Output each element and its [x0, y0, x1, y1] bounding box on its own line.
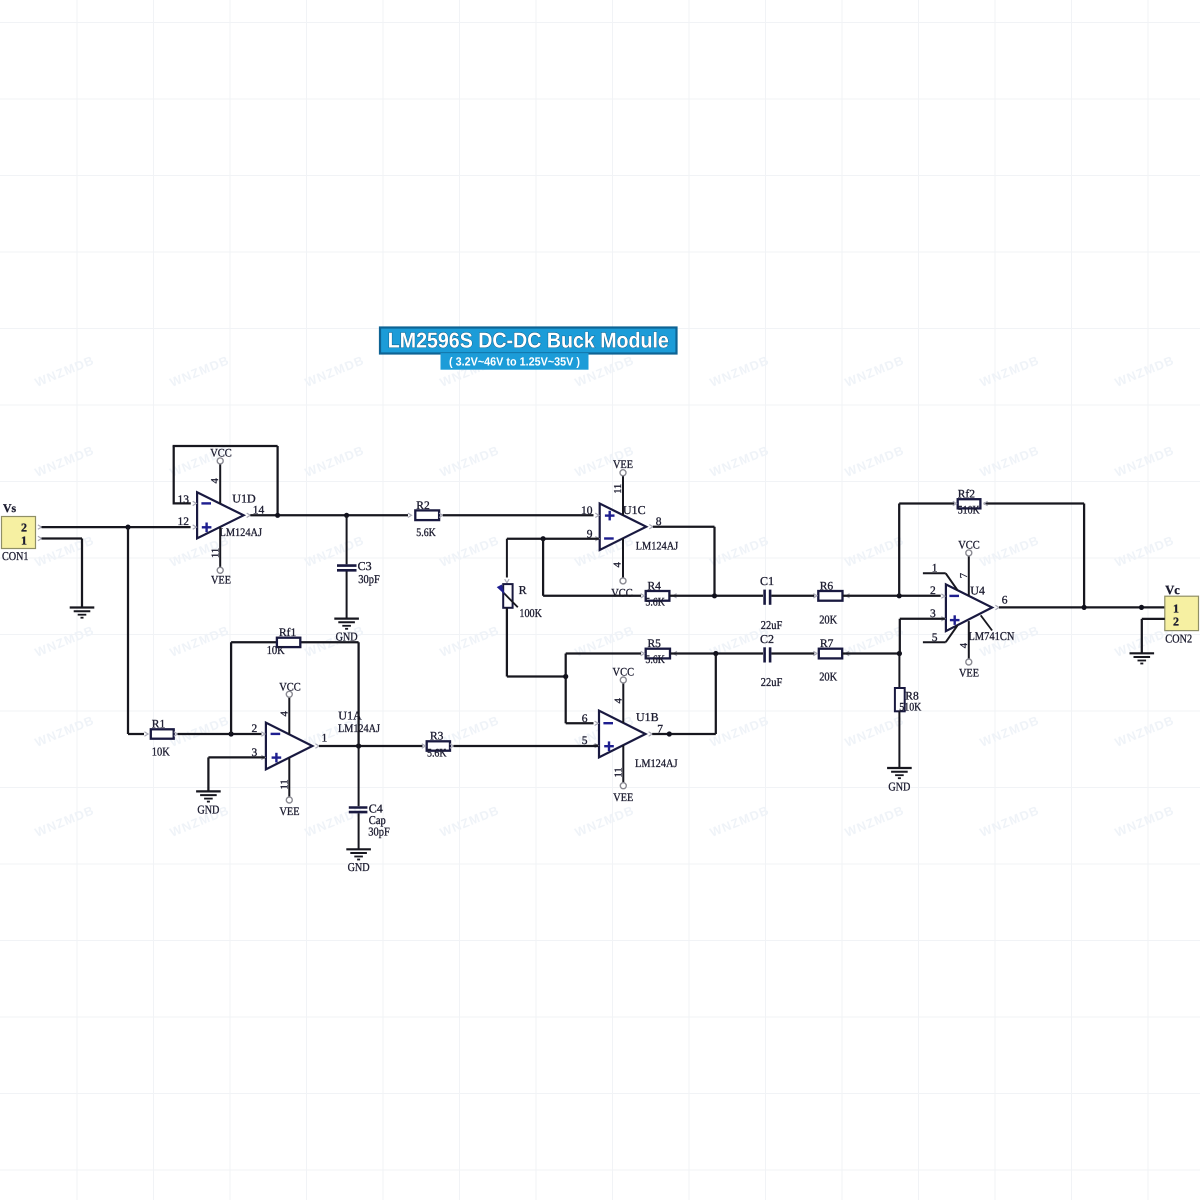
wire U1A output to R3	[319, 745, 423, 747]
svg-text:2: 2	[252, 723, 258, 735]
op-amp U1B LM124AJ	[582, 667, 678, 804]
op-amp U1A LM124AJ	[252, 681, 381, 818]
resistor Rf1 10K	[267, 627, 301, 657]
svg-text:11: 11	[613, 767, 624, 777]
junction U4 pin3 / R8	[897, 651, 902, 656]
wire U1C output down to R4 line	[653, 526, 715, 528]
svg-text:30pF: 30pF	[368, 825, 390, 839]
VEE power pin (pin 11)	[219, 527, 221, 567]
junction Rf2 right leg	[1082, 605, 1087, 610]
svg-text:100K: 100K	[519, 606, 542, 620]
ground (CON2)	[1130, 652, 1155, 654]
junction C4/Rf1 tap	[356, 743, 361, 748]
svg-text:4: 4	[613, 698, 624, 704]
svg-text:Rf1: Rf1	[279, 627, 297, 639]
wire R2 to U1C pin10	[443, 514, 594, 516]
wire U4 pin3 down to R7 node	[900, 618, 945, 620]
connector CON1	[2, 517, 42, 564]
VCC power pin (pin 4)	[288, 697, 290, 734]
svg-text:6: 6	[1002, 594, 1008, 606]
svg-text:30pF: 30pF	[358, 572, 380, 586]
junction on U1B output	[667, 731, 672, 736]
svg-text:10K: 10K	[152, 745, 170, 759]
resistor R5 5.6K	[641, 638, 677, 666]
svg-text:2: 2	[1173, 615, 1179, 629]
svg-text:5.6K: 5.6K	[645, 597, 665, 609]
wire junction up to R5 left	[565, 654, 567, 677]
wire U4 output to CON2	[999, 606, 1165, 608]
wire C1 to R6	[771, 595, 814, 597]
part LM741CN with callout	[981, 615, 992, 630]
svg-text:10: 10	[581, 505, 593, 517]
svg-text:U1C: U1C	[623, 503, 646, 517]
VCC power pin (pin 7)	[968, 556, 970, 596]
wire junction down to U1B pin6	[565, 677, 567, 724]
svg-text:5.6K: 5.6K	[416, 527, 436, 539]
svg-text:4: 4	[613, 562, 624, 568]
svg-text:R1: R1	[152, 719, 166, 731]
wire feedback node down to R4 left	[542, 539, 544, 596]
svg-text:LM2596S DC-DC Buck Module: LM2596S DC-DC Buck Module	[388, 329, 669, 353]
ground (R8)	[887, 767, 912, 769]
title banner: LM2596S DC-DC Buck Module	[380, 328, 677, 370]
svg-text:2: 2	[21, 521, 27, 535]
junction CON2 branch	[1139, 605, 1144, 610]
VCC power pin (pin 4)	[622, 683, 624, 723]
svg-text:1: 1	[322, 733, 328, 745]
svg-text:U1D: U1D	[232, 491, 256, 505]
svg-text:2: 2	[930, 585, 936, 597]
svg-text:CON1: CON1	[2, 549, 29, 563]
wire R7 to R8 node	[842, 652, 899, 654]
svg-text:6: 6	[582, 713, 588, 725]
svg-text:5.6K: 5.6K	[645, 654, 665, 666]
resistor R2 5.6K	[408, 500, 443, 539]
capacitor C1 22uF	[760, 574, 783, 632]
svg-text:VCC: VCC	[611, 587, 633, 599]
svg-text:5.6K: 5.6K	[427, 748, 447, 760]
svg-text:20K: 20K	[819, 612, 837, 626]
junction U1B output / R5 / C2	[713, 651, 718, 656]
svg-text:R6: R6	[820, 580, 834, 592]
svg-text:LM124AJ: LM124AJ	[635, 758, 678, 770]
wire R5 to C2	[670, 652, 763, 654]
junction Rf2 left leg	[897, 593, 902, 598]
VEE power pin (pin 11)	[622, 745, 624, 783]
ground (CON1)	[70, 606, 95, 608]
svg-text:VCC: VCC	[958, 540, 980, 552]
svg-text:22uF: 22uF	[761, 675, 783, 689]
junction U1C output / R4 / C1	[712, 593, 717, 598]
svg-text:R2: R2	[416, 500, 430, 512]
svg-text:LM124AJ: LM124AJ	[220, 527, 263, 539]
svg-text:C2: C2	[760, 632, 774, 646]
svg-text:R3: R3	[430, 731, 444, 743]
svg-text:CON2: CON2	[1165, 632, 1192, 646]
resistor Rf2 510K	[953, 488, 988, 516]
svg-text:C1: C1	[760, 574, 774, 588]
wire U1D output to R2	[250, 514, 408, 516]
capacitor C3 30pF	[337, 515, 380, 618]
VEE power pin (pin 11)	[622, 476, 624, 516]
wire C2 to R7	[771, 652, 814, 654]
op-amp U1C LM124AJ	[581, 459, 679, 599]
wire CON1 pin2 to U1D pin12	[42, 526, 191, 528]
wire R3 to U1B pin5	[454, 745, 599, 747]
svg-text:VEE: VEE	[211, 574, 231, 586]
resistor R4 5.6K	[641, 580, 677, 608]
junction R/R5/U1B pin6	[563, 674, 568, 679]
wire Vs node down to R1	[127, 527, 129, 734]
ground (C3)	[334, 617, 359, 619]
capacitor C2 22uF	[760, 632, 783, 689]
wire U1A pin3 to ground	[208, 756, 265, 758]
svg-text:LM741CN: LM741CN	[968, 629, 1014, 643]
svg-text:Rf2: Rf2	[958, 488, 976, 500]
pin 1 offset stub	[923, 572, 946, 574]
svg-text:VEE: VEE	[613, 459, 633, 471]
wire R bottom to U1B branch	[506, 608, 508, 677]
wire R4 to C1	[670, 595, 763, 597]
VCC power pin (pin 4)	[219, 464, 221, 504]
svg-text:7: 7	[959, 573, 970, 578]
junction pin9/R4 feedback	[541, 536, 546, 541]
svg-text:1: 1	[1173, 602, 1179, 616]
resistor R6 20K	[813, 580, 849, 626]
connector CON2	[1165, 596, 1199, 645]
wire U1C pin9 to feedback node	[507, 538, 599, 540]
svg-text:VCC: VCC	[210, 447, 232, 459]
svg-text:GND: GND	[888, 780, 910, 794]
svg-text:Vc: Vc	[1165, 583, 1180, 597]
resistor R7 20K	[813, 638, 849, 684]
junction feedback/output	[275, 513, 280, 518]
svg-text:VEE: VEE	[280, 806, 300, 818]
svg-text:22uF: 22uF	[761, 618, 783, 632]
capacitor C4 Cap 30pF	[349, 746, 390, 849]
svg-text:4: 4	[959, 642, 970, 648]
ground (C4)	[346, 848, 371, 850]
svg-text:4: 4	[279, 711, 290, 717]
svg-text:510K: 510K	[958, 504, 981, 516]
svg-text:VEE: VEE	[613, 792, 633, 804]
VEE power pin (pin 4)	[968, 621, 970, 659]
svg-text:11: 11	[279, 779, 290, 789]
svg-text:11: 11	[613, 484, 624, 494]
wire R1 to U1A pin2	[178, 733, 262, 735]
svg-text:Vs: Vs	[3, 501, 17, 515]
svg-text:5: 5	[932, 632, 938, 644]
wire R6 to U4 pin2	[843, 595, 941, 597]
svg-text:R7: R7	[820, 638, 834, 650]
svg-text:VCC: VCC	[613, 667, 635, 679]
op-amp U1D LM124AJ	[178, 447, 265, 586]
junction C3 tap	[344, 513, 349, 518]
svg-text:U4: U4	[970, 583, 985, 597]
wire Rf2 feedback loop	[898, 504, 900, 596]
svg-text:11: 11	[211, 548, 222, 558]
pin 5 offset stub	[923, 641, 946, 643]
wire Rf1 feedback loop	[230, 642, 232, 734]
variable resistor R 100K	[498, 539, 543, 620]
svg-text:20K: 20K	[819, 670, 837, 684]
svg-text:12: 12	[178, 516, 190, 528]
wire U1B output up to R5/C2 line	[652, 733, 716, 735]
junction Rf1 tap	[229, 731, 234, 736]
ground (U1A pin3)	[196, 790, 221, 792]
resistor R8 510K	[895, 654, 922, 769]
svg-text:4: 4	[210, 478, 221, 484]
wire CON1 pin1 to ground	[42, 537, 83, 539]
svg-text:R4: R4	[648, 580, 662, 592]
svg-text:GND: GND	[197, 803, 219, 817]
svg-text:510K: 510K	[899, 702, 922, 714]
svg-text:VEE: VEE	[959, 668, 979, 680]
svg-text:10K: 10K	[267, 643, 285, 657]
resistor R3 5.6K	[422, 731, 454, 760]
svg-text:LM124AJ: LM124AJ	[636, 541, 679, 553]
svg-text:R5: R5	[648, 638, 662, 650]
VEE power pin (pin 11)	[288, 758, 290, 797]
wire U1D feedback loop	[174, 502, 191, 504]
svg-text:GND: GND	[348, 860, 370, 874]
op-amp U4 LM741CN	[923, 540, 1015, 680]
svg-text:U1B: U1B	[636, 710, 659, 724]
wire CON2 pin2 to ground	[1142, 618, 1165, 620]
junction at Vs node	[125, 525, 130, 530]
resistor R1 10K	[144, 719, 177, 759]
svg-text:1: 1	[932, 562, 938, 574]
svg-text:R: R	[519, 583, 527, 597]
svg-text:( 3.2V~46V to 1.25V~35V ): ( 3.2V~46V to 1.25V~35V )	[449, 355, 580, 369]
svg-text:1: 1	[21, 534, 27, 548]
svg-text:VCC: VCC	[279, 681, 301, 693]
VCC power pin (pin 4)	[622, 538, 624, 578]
